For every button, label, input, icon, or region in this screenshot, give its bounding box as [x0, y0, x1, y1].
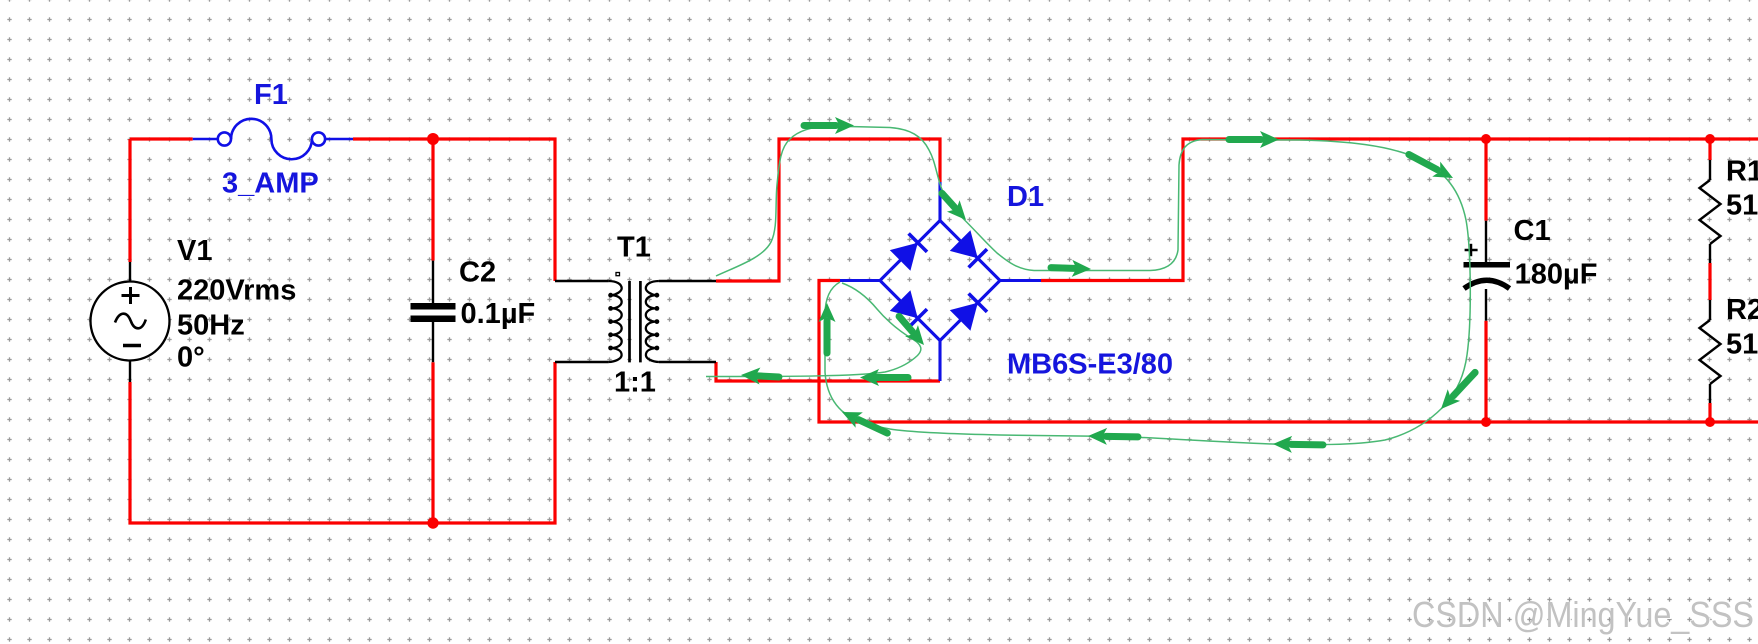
- svg-text:D1: D1: [1007, 181, 1044, 213]
- svg-text:R1: R1: [1726, 156, 1758, 188]
- svg-text:51: 51: [1726, 329, 1758, 361]
- svg-text:220Vrms: 220Vrms: [177, 275, 296, 307]
- svg-text:C2: C2: [459, 257, 496, 289]
- svg-text:0°: 0°: [177, 342, 205, 374]
- svg-text:V1: V1: [177, 235, 212, 267]
- svg-text:T1: T1: [617, 232, 651, 264]
- svg-text:51: 51: [1726, 190, 1758, 222]
- svg-text:1:1: 1:1: [614, 366, 656, 398]
- svg-text:50Hz: 50Hz: [177, 309, 245, 341]
- svg-text:C1: C1: [1514, 215, 1551, 247]
- svg-text:180µF: 180µF: [1515, 259, 1598, 291]
- svg-text:R2: R2: [1726, 294, 1758, 326]
- svg-text:MB6S-E3/80: MB6S-E3/80: [1007, 349, 1173, 381]
- svg-text:0.1µF: 0.1µF: [461, 298, 536, 330]
- svg-text:3_AMP: 3_AMP: [222, 168, 319, 200]
- svg-text:CSDN @MingYue_SSS: CSDN @MingYue_SSS: [1412, 594, 1754, 635]
- svg-text:F1: F1: [254, 79, 288, 111]
